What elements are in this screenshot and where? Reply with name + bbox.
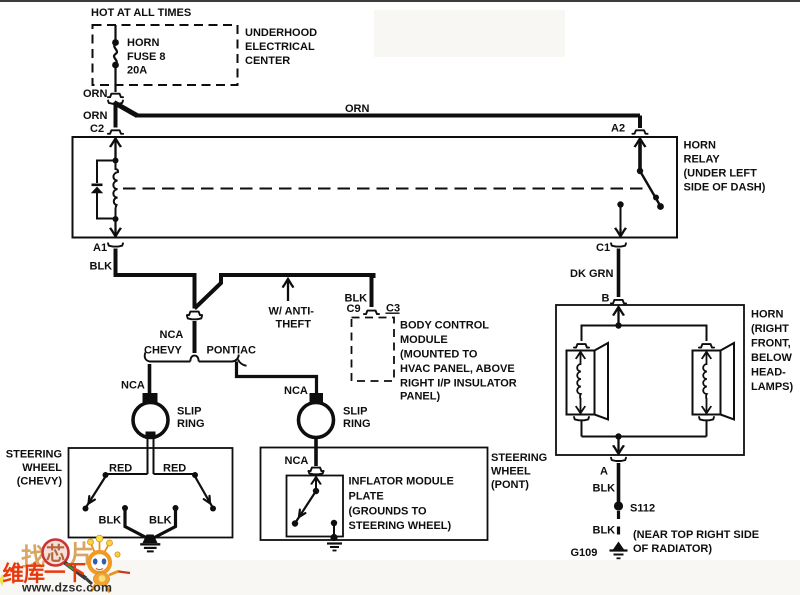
label BODY CONTROL MODULE ... (400, 320, 517, 403)
svg-text:BLK: BLK (99, 515, 122, 527)
label RED right (163, 463, 186, 475)
svg-text:www.dzsc.com: www.dzsc.com (21, 581, 112, 595)
label C2 (90, 123, 104, 135)
relay coil bottom junction dot (113, 216, 119, 222)
svg-text:(CHEVY): (CHEVY) (17, 476, 63, 488)
svg-text:HEAD-: HEAD- (751, 367, 786, 379)
slip ring chevy bottom terminal (146, 432, 156, 440)
connector C9 (364, 311, 379, 315)
wire pontiac branch (237, 362, 317, 395)
svg-text:SIDE OF DASH): SIDE OF DASH) (684, 182, 766, 194)
wire ORN diagonal branch (114, 103, 137, 116)
watermark mascot (88, 535, 131, 592)
inflator contact dot (331, 520, 337, 526)
label ORN lower (83, 110, 108, 122)
wire RED right (154, 473, 196, 475)
svg-text:WHEEL: WHEEL (491, 466, 531, 478)
svg-text:HORN: HORN (127, 37, 159, 49)
switch common dot (637, 168, 643, 174)
svg-text:HVAC PANEL, ABOVE: HVAC PANEL, ABOVE (400, 363, 515, 375)
label NCA pontiac (284, 385, 308, 397)
label S112 (630, 503, 655, 515)
horn assembly box (556, 305, 744, 455)
svg-text:HORN: HORN (684, 140, 716, 152)
diode D1 (91, 184, 103, 194)
watermark sparkle (0, 574, 6, 587)
ground wires chevy (125, 510, 176, 539)
arrow into horn box at B (613, 307, 624, 325)
horn right body (693, 343, 735, 420)
inflator module plate box (287, 476, 344, 537)
label SLIP RING pontiac (343, 406, 371, 431)
connector above right horn (699, 344, 714, 348)
connector A2 (632, 130, 647, 134)
svg-text:(UNDER LEFT: (UNDER LEFT (684, 168, 758, 180)
arrow out of horn box at A (613, 438, 624, 454)
label A (600, 466, 608, 478)
contact dot right upper (192, 472, 198, 478)
watermark magnifier ring with xin character (43, 540, 69, 566)
ground G109 (610, 542, 628, 559)
contact dot left upper (103, 472, 109, 478)
svg-text:HOT AT ALL TIMES: HOT AT ALL TIMES (91, 7, 191, 19)
svg-text:20A: 20A (127, 65, 147, 77)
wire DK GRN (617, 249, 621, 298)
connector B (611, 300, 626, 304)
label PONTIAC (207, 345, 257, 357)
horn left coil and arrows (576, 352, 585, 413)
label C1 (596, 242, 610, 254)
label SLIP RING chevy (177, 406, 205, 431)
slip ring pontiac (299, 403, 334, 438)
slip ring chevy terminal (143, 393, 158, 403)
label B (602, 293, 610, 305)
label (NEAR TOP RIGHT SIDE OF RADIATOR) (633, 529, 759, 555)
label NCA chevy (121, 380, 145, 392)
wire from box top to fuse (114, 25, 116, 42)
connector C1 (611, 243, 626, 246)
svg-text:RELAY: RELAY (684, 154, 721, 166)
wire BLK below horn (617, 463, 621, 502)
wire BLK from A1 (114, 249, 195, 309)
grey footer strip (0, 560, 800, 595)
wire ORN horizontal run (135, 114, 640, 118)
wire right horn to bottom rail (706, 421, 708, 437)
switch arm right (arrow) (195, 477, 216, 512)
svg-text:ELECTRICAL: ELECTRICAL (245, 41, 315, 53)
label CHEVY (144, 345, 183, 357)
svg-text:BLK: BLK (149, 515, 172, 527)
fuse F8 element (114, 44, 117, 64)
svg-text:PLATE: PLATE (349, 491, 384, 503)
label C3 underlined (386, 303, 401, 315)
wire left horn to bottom rail (581, 421, 583, 437)
svg-text:FRONT,: FRONT, (751, 338, 791, 350)
svg-text:MODULE: MODULE (400, 334, 448, 346)
label STEERING WHEEL (CHEVY) (6, 449, 63, 488)
wires slip ring to steering wheel chevy (148, 439, 154, 474)
svg-text:ORN: ORN (345, 103, 370, 115)
label A1 (93, 242, 107, 254)
label ORN upper (83, 88, 108, 100)
underhood electrical center dashed box (93, 25, 238, 85)
label HORN RELAY (UNDER LEFT SIDE OF DASH) (684, 140, 766, 194)
connector above left horn (574, 344, 589, 348)
svg-text:STEERING: STEERING (6, 449, 62, 461)
label HOT AT ALL TIMES (91, 7, 191, 19)
arrow out of relay at C1 (615, 228, 626, 237)
svg-text:PANEL): PANEL) (400, 390, 440, 402)
svg-text:(NEAR TOP RIGHT SIDE: (NEAR TOP RIGHT SIDE (633, 529, 759, 541)
contact dot lower right (173, 505, 179, 511)
label C9 (347, 303, 361, 315)
wire BLK dashed to ground (617, 511, 620, 542)
label HORN FUSE 8 20A (127, 37, 166, 77)
label W/ ANTI-THEFT (269, 306, 315, 331)
svg-text:RED: RED (109, 463, 132, 475)
connector A (611, 458, 626, 461)
svg-text:(MOUNTED TO: (MOUNTED TO (400, 349, 478, 361)
split bus center bump (190, 356, 198, 362)
horn right coil and arrows (702, 352, 711, 413)
switch fixed contact dot (617, 201, 623, 207)
connector NCA inflator (double arc) (308, 468, 323, 475)
label BLK left (99, 515, 122, 527)
wire contact to C1 arrow (620, 206, 622, 229)
body control module dashed box (352, 318, 395, 382)
watermark-blank grey patch top right (374, 10, 565, 57)
svg-text:NCA: NCA (160, 329, 184, 341)
svg-text:S112: S112 (630, 503, 655, 515)
steering wheel chevy box (69, 448, 233, 538)
label G109 (571, 547, 598, 559)
wire ORN drop to A2 (638, 116, 642, 129)
slip ring chevy (133, 403, 168, 438)
svg-text:BELOW: BELOW (751, 352, 793, 364)
arrow W/ ANTI-THEFT (283, 279, 294, 301)
arrow into relay at C2 (110, 139, 121, 161)
svg-text:RING: RING (177, 418, 205, 430)
watermark text zhao xin pian (21, 541, 94, 571)
svg-text:A1: A1 (93, 242, 107, 254)
label NCA splice (160, 329, 184, 341)
wire slip ring pontiac down (314, 437, 318, 466)
label BLK upper right (593, 483, 616, 495)
label BLK BCM (345, 293, 368, 305)
connector below left horn (574, 417, 589, 420)
svg-text:FUSE 8: FUSE 8 (127, 51, 166, 63)
svg-text:BODY CONTROL: BODY CONTROL (400, 320, 489, 332)
label STEERING WHEEL (PONT) (491, 452, 547, 491)
svg-text:(PONT): (PONT) (491, 479, 529, 491)
splice S112 dot (614, 501, 623, 510)
label A2 (611, 123, 625, 135)
horn left body (567, 343, 609, 420)
horn bottom rail wire (582, 436, 707, 438)
svg-text:RIGHT I/P INSULATOR: RIGHT I/P INSULATOR (400, 377, 517, 389)
svg-text:维: 维 (3, 561, 25, 586)
label RED left (109, 463, 132, 475)
svg-text:NCA: NCA (285, 455, 309, 467)
ground inflator (327, 544, 342, 551)
svg-text:C9: C9 (347, 303, 361, 315)
svg-text:WHEEL: WHEEL (22, 462, 62, 474)
svg-text:(RIGHT: (RIGHT (751, 323, 789, 335)
svg-text:DK GRN: DK GRN (570, 268, 613, 280)
watermark text wei ku yi xia (3, 561, 87, 586)
watermark magnifier handle (65, 563, 93, 585)
steering wheel pontiac box (261, 448, 488, 541)
slip ring pontiac terminal (310, 393, 324, 403)
svg-text:BLK: BLK (90, 261, 113, 273)
svg-text:BLK: BLK (593, 525, 616, 537)
connector C2 (108, 130, 123, 134)
arrow out of relay at A1 (110, 228, 121, 237)
horn top rail wire (582, 326, 707, 342)
relay coil top junction dot (113, 158, 119, 164)
split bus line with curled ends (145, 353, 247, 366)
wire RED left (106, 473, 148, 475)
switch blade (640, 171, 664, 210)
fuse F8 terminal dot bottom (112, 62, 119, 69)
svg-text:RED: RED (163, 463, 186, 475)
label UNDERHOOD ELECTRICAL CENTER (245, 27, 317, 67)
svg-text:RING: RING (343, 418, 371, 430)
diode branch wires (97, 161, 116, 219)
svg-text:C2: C2 (90, 123, 104, 135)
label INFLATOR MODULE PLATE (GROUNDS TO STEERING WHEEL) (349, 476, 454, 533)
ground chevy (140, 535, 160, 552)
svg-text:B: B (602, 293, 610, 305)
svg-text:SLIP: SLIP (343, 406, 367, 418)
horn bottom junction dot (615, 433, 621, 439)
svg-text:SLIP: SLIP (177, 406, 201, 418)
inflator switch arm (arrow) (292, 491, 316, 527)
label BLK A1 (90, 261, 113, 273)
label DK GRN (570, 268, 613, 280)
svg-text:STEERING: STEERING (491, 452, 547, 464)
label HORN (RIGHT FRONT, BELOW HEAD- LAMPS) (751, 309, 794, 394)
horn relay box (73, 137, 678, 238)
relay linkage dashed line (123, 188, 651, 190)
svg-text:STEERING WHEEL): STEERING WHEEL) (349, 520, 452, 532)
wire diagonal splice to BCM branch (195, 275, 374, 309)
svg-text:A: A (600, 466, 608, 478)
svg-text:A2: A2 (611, 123, 625, 135)
svg-text:ORN: ORN (83, 88, 108, 100)
wire splice to split (193, 321, 197, 353)
inflator contact wire to ground (330, 524, 337, 541)
svg-text:W/ ANTI-: W/ ANTI- (269, 306, 315, 318)
svg-text:ORN: ORN (83, 110, 108, 122)
svg-text:THEFT: THEFT (276, 319, 312, 331)
svg-text:INFLATOR MODULE: INFLATOR MODULE (349, 476, 454, 488)
svg-text:G109: G109 (571, 547, 598, 559)
svg-text:BLK: BLK (593, 483, 616, 495)
svg-text:CENTER: CENTER (245, 55, 290, 67)
svg-text:LAMPS): LAMPS) (751, 381, 794, 393)
connector below right horn (699, 417, 714, 420)
svg-text:HORN: HORN (751, 309, 783, 321)
svg-text:(GROUNDS TO: (GROUNDS TO (349, 506, 427, 518)
wire fuse to connector (114, 65, 116, 92)
wire chevy branch (148, 364, 152, 394)
top border line (0, 0, 800, 2)
label ORN mid (345, 103, 370, 115)
horn top junction dot (615, 322, 621, 328)
wire coil to arrow (114, 221, 116, 229)
contact dot lower left (122, 505, 128, 511)
switch arm left (arrow) (83, 477, 106, 512)
svg-text:NCA: NCA (121, 380, 145, 392)
svg-text:OF RADIATOR): OF RADIATOR) (633, 543, 712, 555)
svg-text:CHEVY: CHEVY (144, 345, 183, 357)
fuse F8 terminal dot top (112, 39, 119, 46)
svg-text:C1: C1 (596, 242, 610, 254)
wire ORN vertical C2 drop (114, 102, 118, 128)
svg-text:PONTIAC: PONTIAC (207, 345, 257, 357)
watermark url www.dzsc.com (21, 581, 112, 595)
connector below fuse box (double arc) (108, 94, 123, 104)
label BLK right (149, 515, 172, 527)
arrow into relay at A2 / switch common (635, 139, 646, 172)
splice connector NCA (double arc) (187, 312, 202, 320)
svg-text:NCA: NCA (284, 385, 308, 397)
label NCA inflator (285, 455, 309, 467)
label BLK lower right (593, 525, 616, 537)
inflator arm top dot (313, 488, 319, 494)
connector A1 (108, 243, 123, 246)
arrow into inflator box (311, 477, 321, 490)
relay coil L1 (113, 162, 118, 217)
svg-text:UNDERHOOD: UNDERHOOD (245, 27, 317, 39)
